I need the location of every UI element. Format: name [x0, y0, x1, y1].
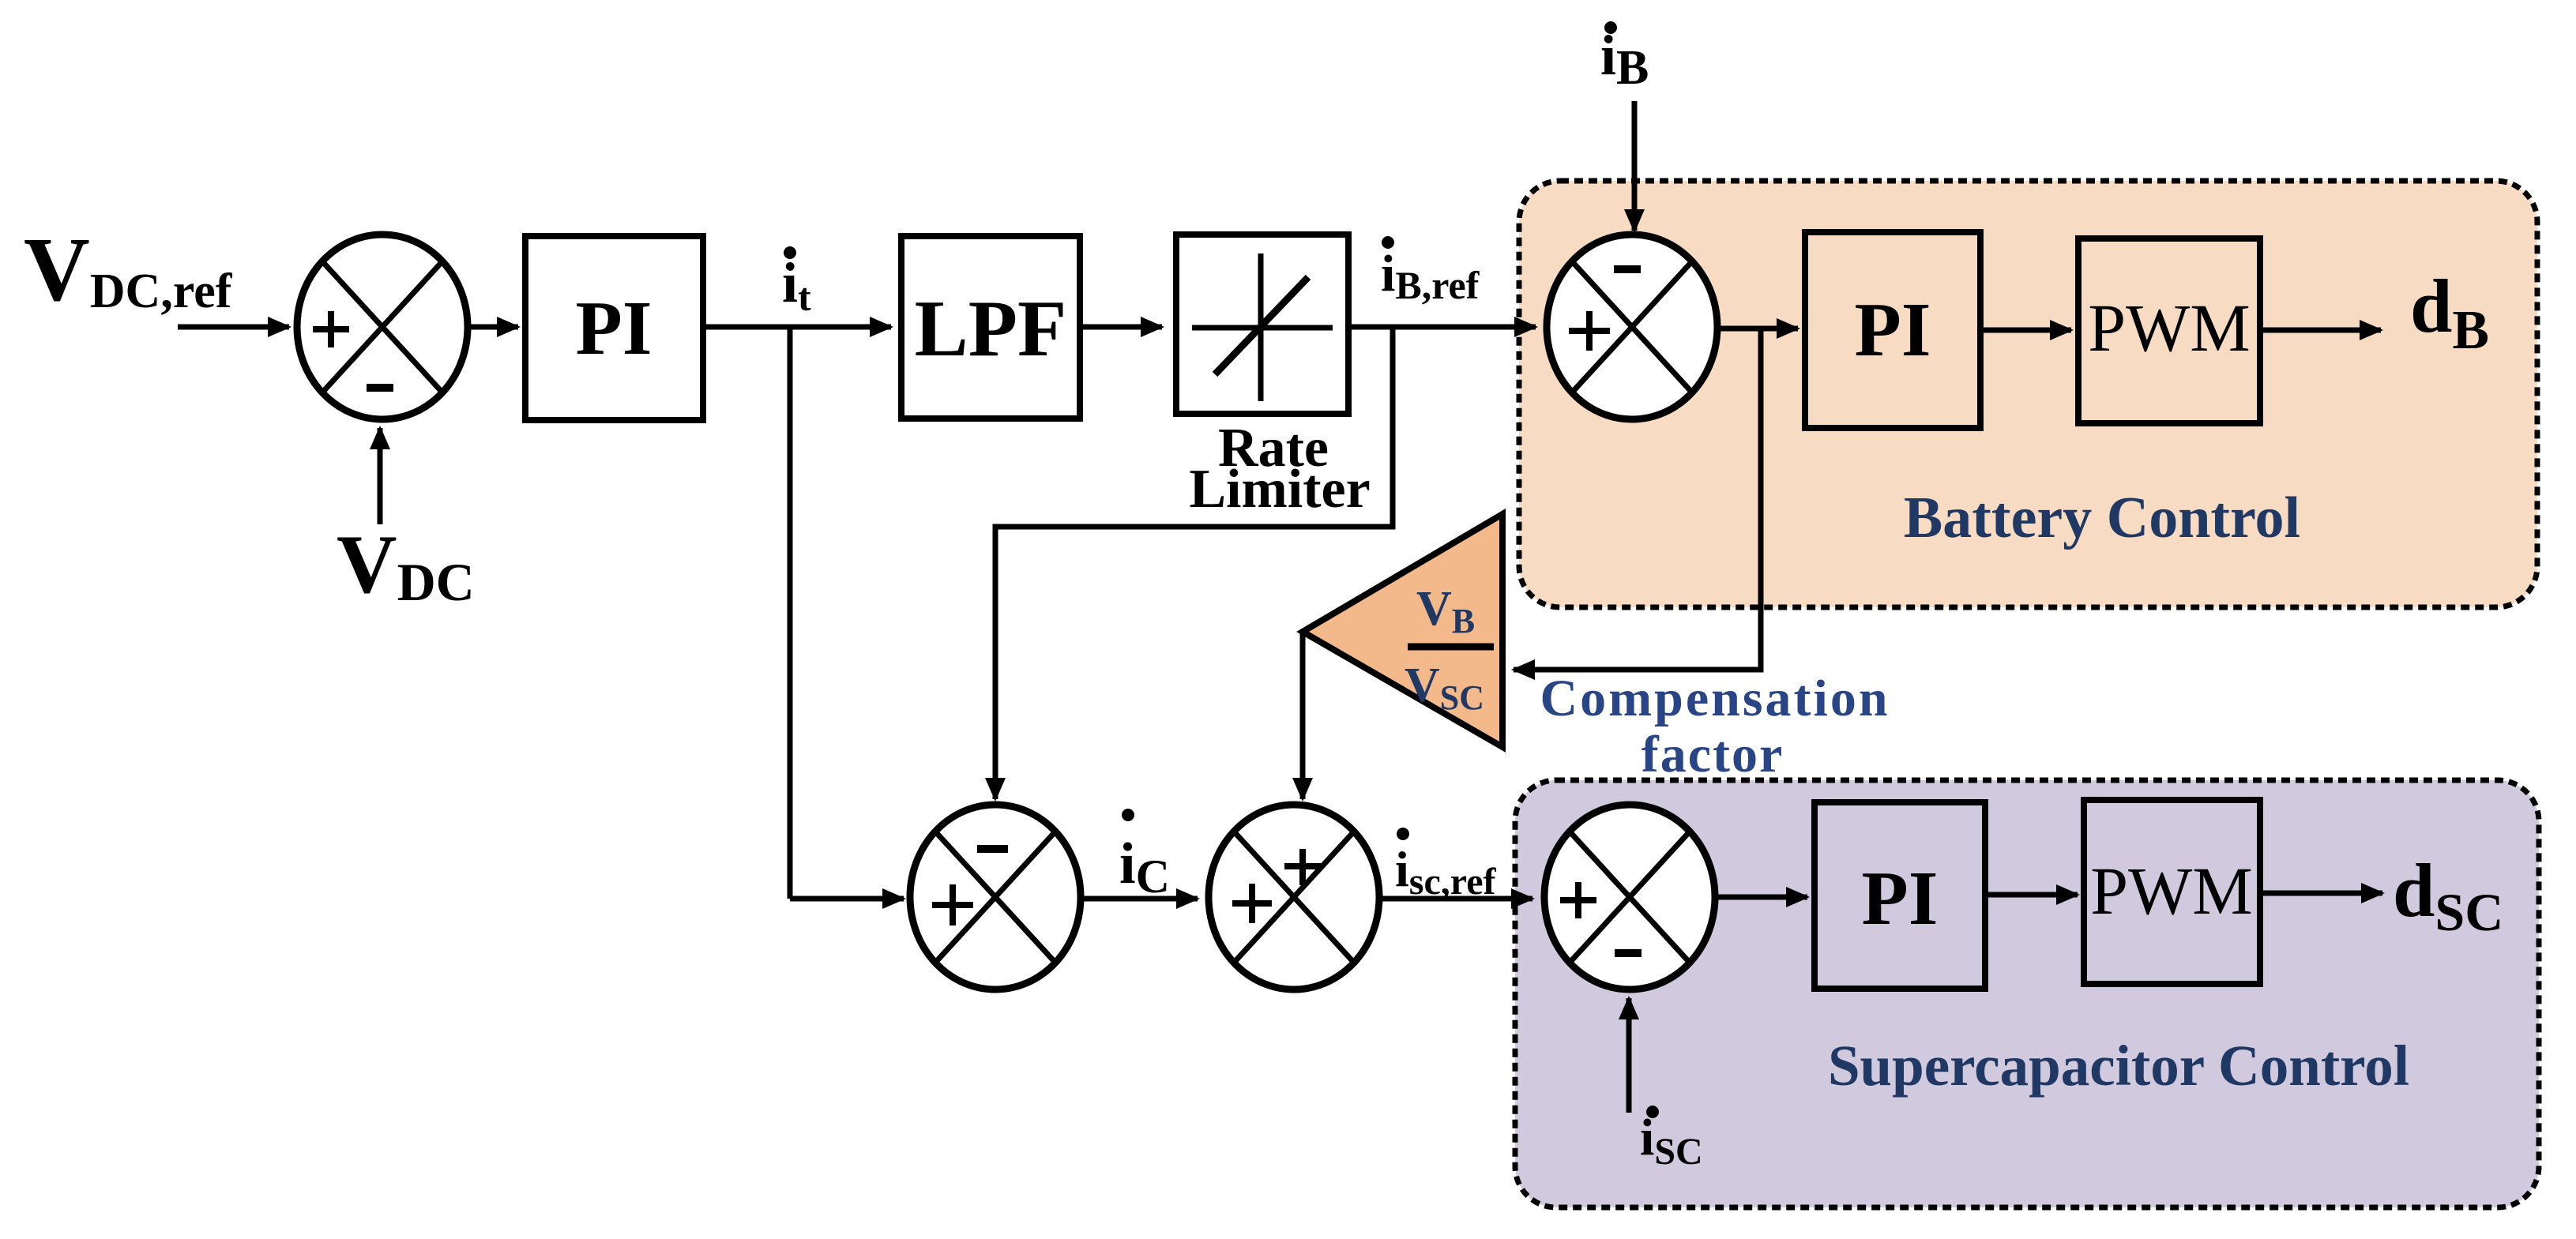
PI block 3 — [1814, 802, 1985, 989]
label i_t — [782, 246, 811, 319]
wire PI1 to LPF — [703, 325, 891, 330]
wire i_B input — [1632, 101, 1638, 231]
label i_C — [1119, 809, 1170, 903]
svg-text:PI: PI — [576, 286, 652, 370]
summing junction S3 — [910, 805, 1081, 989]
summing junction S1 — [297, 235, 468, 419]
PWM block 2 — [2084, 800, 2260, 984]
wire LPF to Rate Limiter — [1080, 325, 1162, 330]
compensation factor triangle — [1303, 514, 1502, 747]
wire i_t branch to S3 — [790, 896, 904, 902]
label i_B — [1600, 21, 1649, 95]
wire PWM1 to d_B — [2260, 328, 2381, 333]
Supercapacitor Control dashed box — [1515, 780, 2539, 1207]
summing junction S5 supercap — [1544, 805, 1715, 989]
LPF block — [901, 236, 1080, 419]
svg-text:Limiter: Limiter — [1189, 459, 1370, 520]
node i_t junction — [788, 327, 793, 899]
svg-text:Supercapacitor Control: Supercapacitor Control — [1828, 1034, 2409, 1098]
svg-text:Battery Control: Battery Control — [1904, 486, 2300, 550]
wire S3 to S4 — [1081, 896, 1198, 902]
wire PI3 to PWM2 — [1985, 892, 2078, 898]
svg-text:PWM: PWM — [2088, 290, 2250, 366]
wire VDC,ref input — [178, 325, 289, 330]
label i_sc,ref — [1395, 828, 1497, 903]
summing junction S2 battery — [1547, 235, 1717, 419]
wire S2 to PI2 — [1717, 326, 1798, 332]
wire branch i_B,ref feedback — [995, 327, 1393, 782]
summing junction S4 — [1209, 805, 1379, 989]
PI block 2 — [1805, 232, 1980, 428]
PI block 1 — [525, 236, 703, 420]
wire V_DC input — [378, 428, 383, 524]
Rate Limiter block — [1176, 235, 1348, 414]
Battery Control dashed box — [1519, 181, 2537, 607]
svg-text:PI: PI — [1862, 856, 1939, 941]
label i_B,ref — [1381, 236, 1480, 307]
svg-text:PI: PI — [1855, 287, 1931, 372]
wire triangle output down — [1300, 633, 1306, 782]
PWM block 1 — [2078, 238, 2260, 423]
wire PWM2 to d_SC — [2260, 891, 2382, 896]
svg-text:PWM: PWM — [2090, 853, 2252, 929]
wire S5 to PI3 — [1715, 895, 1807, 900]
label i_SC — [1640, 1106, 1703, 1173]
wire RL to battery summer — [1348, 325, 1536, 330]
svg-text:factor: factor — [1641, 726, 1784, 783]
wire i_SC input — [1626, 998, 1632, 1113]
svg-text:Compensation: Compensation — [1540, 670, 1890, 727]
wire PI2 to PWM1 — [1980, 328, 2071, 333]
wire branch to compensation triangle — [1514, 329, 1761, 670]
wire S4 to S5 — [1379, 896, 1532, 902]
svg-text:LPF: LPF — [915, 284, 1067, 374]
wire S1 to PI1 — [468, 325, 518, 330]
